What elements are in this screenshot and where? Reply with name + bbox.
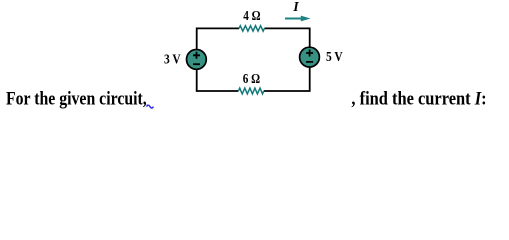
svg-text:I: I xyxy=(292,0,299,15)
wire top-right segment xyxy=(264,28,309,47)
V2 plus sign xyxy=(306,50,313,57)
resistor R1 4ohm zigzag xyxy=(239,26,264,31)
voltage source V2 5V circle xyxy=(300,47,320,67)
wire bottom-left segment xyxy=(197,70,239,91)
V2 minus sign xyxy=(306,61,313,63)
svg-text:For the given circuit,: For the given circuit, xyxy=(6,87,147,109)
resistor R2 6ohm zigzag xyxy=(238,88,263,94)
voltage source V1 3V circle xyxy=(187,50,207,70)
V1 minus sign xyxy=(193,63,200,65)
V1 plus sign xyxy=(193,52,200,59)
svg-text:4 Ω: 4 Ω xyxy=(243,8,260,23)
svg-text:, find the current I:: , find the current I: xyxy=(351,88,486,109)
blue squiggle after comma xyxy=(147,105,154,108)
svg-text:3 V: 3 V xyxy=(164,51,181,66)
current arrow xyxy=(285,18,302,20)
wire top-left segment xyxy=(197,28,239,49)
svg-text:6 Ω: 6 Ω xyxy=(243,71,260,86)
svg-text:5 V: 5 V xyxy=(326,49,343,64)
wire bottom-right segment xyxy=(264,68,310,92)
